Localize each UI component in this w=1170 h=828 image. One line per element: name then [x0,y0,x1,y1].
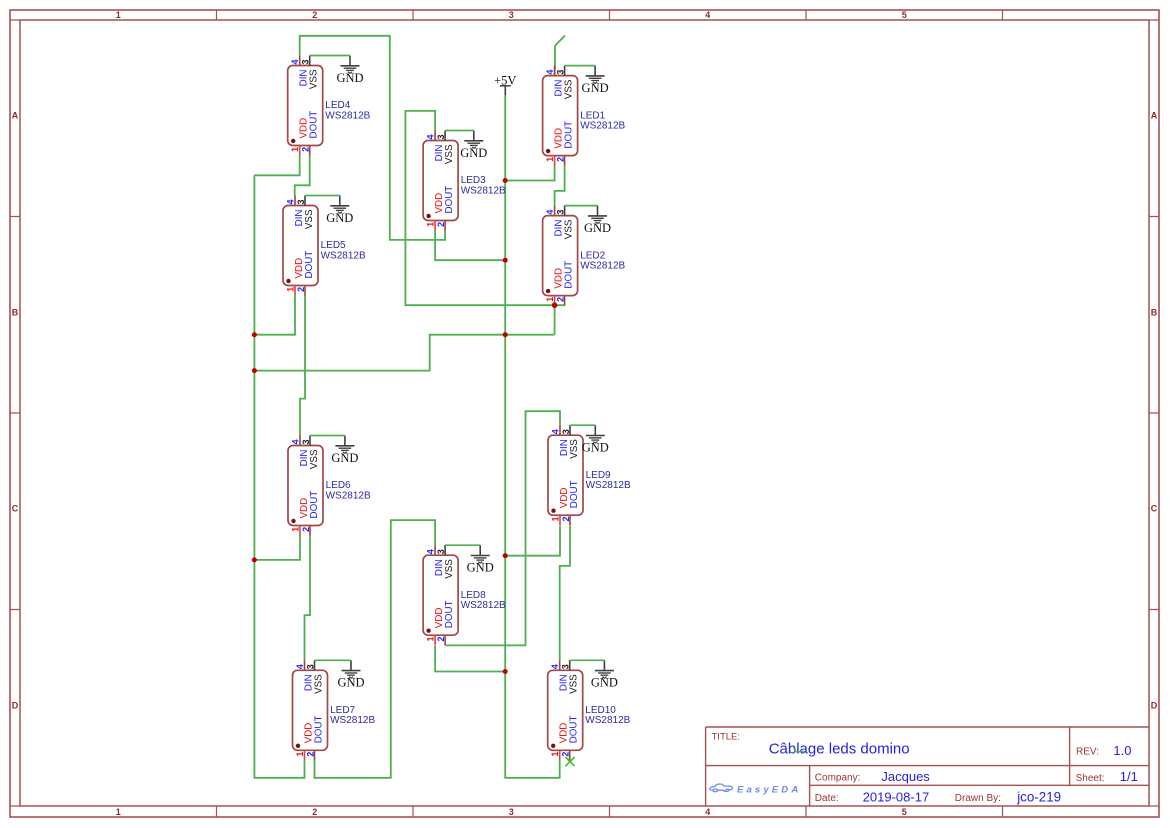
svg-text:Jacques: Jacques [881,769,930,784]
svg-text:5: 5 [902,10,907,20]
wire VSS LED10 to GND [570,659,605,661]
svg-text:DOUT: DOUT [564,121,575,149]
svg-text:DOUT: DOUT [309,491,320,519]
svg-text:C: C [12,504,19,514]
svg-text:GND: GND [326,211,353,225]
svg-text:2: 2 [305,752,315,757]
junction +5V rail / VDD LED3 [503,258,508,263]
svg-text:VSS: VSS [304,209,315,229]
svg-text:GND: GND [337,676,364,690]
svg-text:Sheet:: Sheet: [1076,773,1105,784]
svg-text:2: 2 [312,10,317,20]
svg-text:VSS: VSS [569,674,580,694]
svg-text:4: 4 [425,134,435,139]
wire VSS LED9 to GND [570,424,595,426]
ground GND (LED6) [331,436,358,465]
junction left branch / +5V horizontal [252,368,257,373]
svg-text:WS2812B: WS2812B [330,715,375,726]
svg-text:WS2812B: WS2812B [461,600,506,611]
svg-text:GND: GND [584,221,611,235]
stray green mark in title [794,748,805,752]
svg-text:VSS: VSS [309,449,320,469]
junction left branch / VDD LED5 [252,332,257,337]
svg-text:4: 4 [295,664,305,669]
LED LED8 WS2812B [423,545,506,645]
svg-text:3: 3 [305,664,315,669]
wire branch to VDD LED6 [254,536,300,560]
svg-text:4: 4 [285,199,295,204]
svg-text:3: 3 [301,439,311,444]
LED LED10 WS2812B [548,660,631,760]
svg-text:A: A [1151,111,1158,121]
wire DOUT LED3 to DIN LED4 [300,36,445,240]
svg-text:5: 5 [902,807,907,817]
svg-text:Drawn By:: Drawn By: [955,793,1001,804]
LED LED6 WS2812B [288,436,371,536]
svg-text:WS2812B: WS2812B [321,250,366,261]
junction +5V rail / VDD LED1 [503,178,508,183]
svg-text:2: 2 [436,637,446,642]
wire +5V vertical branch left [254,175,304,778]
svg-text:1: 1 [550,752,560,757]
open end marker DOUT LED10 [565,757,574,766]
svg-text:WS2812B: WS2812B [585,715,630,726]
svg-text:WS2812B: WS2812B [325,110,370,121]
svg-text:1: 1 [550,517,560,522]
svg-text:GND: GND [582,441,609,455]
title block [706,727,1149,806]
wire VSS LED4 to GND [310,55,350,57]
wire DOUT LED7 to DIN LED8 [315,520,436,778]
svg-text:3: 3 [509,807,514,817]
svg-text:WS2812B: WS2812B [461,185,506,196]
svg-text:1: 1 [285,287,295,292]
ground GND (LED2) [584,206,611,235]
svg-text:B: B [1151,307,1158,317]
svg-text:3: 3 [296,199,306,204]
svg-text:1/1: 1/1 [1120,769,1138,784]
svg-text:VSS: VSS [564,79,575,99]
svg-text:VSS: VSS [444,144,455,164]
svg-text:2: 2 [296,287,306,292]
wire VSS LED6 to GND [310,435,345,437]
svg-text:3: 3 [561,664,571,669]
wire DOUT LED8 to DIN LED9 [445,411,560,645]
svg-text:1: 1 [545,297,555,302]
wire VDD LED9 to +5V rail [505,526,560,556]
wire DOUT LED5 to DIN LED6 [300,296,305,436]
wire VDD LED1 to +5V rail [505,166,554,181]
wire DOUT LED9 to DIN LED10 [560,526,570,661]
svg-text:jco-219: jco-219 [1016,789,1061,804]
junction +5V rail / VDD LED9 [503,553,508,558]
svg-text:D: D [12,700,19,710]
svg-text:4: 4 [705,10,710,20]
svg-text:4: 4 [545,210,555,215]
svg-text:Date:: Date: [815,793,839,804]
svg-text:DOUT: DOUT [569,716,580,744]
ground GND (LED7) [337,660,364,689]
svg-text:3: 3 [436,134,446,139]
svg-text:DOUT: DOUT [564,261,575,289]
svg-text:DOUT: DOUT [444,186,455,214]
wire VSS LED1 to GND [565,65,596,67]
wire +5V horizontal to LED5/LED6/LED7 branch [254,335,554,371]
svg-text:GND: GND [331,451,358,465]
svg-text:DOUT: DOUT [309,111,320,139]
svg-text:DOUT: DOUT [304,251,315,279]
LED LED9 WS2812B [548,425,631,525]
svg-text:2: 2 [561,752,571,757]
svg-text:4: 4 [550,429,560,434]
svg-text:2: 2 [555,297,565,302]
svg-text:GND: GND [336,71,363,85]
svg-text:3: 3 [561,429,571,434]
svg-text:EasyEDA: EasyEDA [737,784,801,795]
svg-text:REV:: REV: [1076,747,1099,758]
wire VSS LED8 to GND [445,544,480,546]
wire VSS LED3 to GND [445,130,474,132]
svg-text:Câblage leds domino: Câblage leds domino [769,741,910,758]
svg-text:1: 1 [290,527,300,532]
svg-text:3: 3 [436,549,446,554]
junction +5V rail / VDD LED8 [503,669,508,674]
svg-text:C: C [1151,504,1158,514]
LED LED5 WS2812B [283,196,366,296]
svg-text:VSS: VSS [569,439,580,459]
svg-text:VSS: VSS [444,559,455,579]
svg-text:2: 2 [436,222,446,227]
svg-text:GND: GND [591,676,618,690]
ground GND (LED4) [336,56,363,85]
svg-text:2: 2 [301,147,311,152]
svg-text:Company:: Company: [815,772,861,783]
wire DOUT LED2 / VDD LED2 to DIN LED3 [405,111,564,305]
wire VDD LED8 to +5V rail [435,646,505,672]
svg-text:1.0: 1.0 [1113,743,1131,758]
svg-text:4: 4 [290,59,300,64]
LED LED1 WS2812B [543,66,626,166]
svg-text:1: 1 [290,147,300,152]
junction VDD LED2 / DOUT LED2 net [552,302,558,308]
svg-text:2019-08-17: 2019-08-17 [863,789,930,804]
wire DOUT LED6 to DIN LED7 [305,536,311,661]
ground GND (LED9) [582,425,609,454]
wire branch to VDD LED5 [254,296,295,335]
svg-text:1: 1 [295,752,305,757]
svg-text:2: 2 [312,807,317,817]
svg-text:1: 1 [116,807,121,817]
ground GND (LED3) [460,131,487,160]
svg-text:WS2812B: WS2812B [580,121,625,132]
svg-text:WS2812B: WS2812B [326,490,371,501]
wire VDD LED2 down to +5V horizontal [554,303,556,335]
ground GND (LED5) [326,196,353,225]
LED LED2 WS2812B [543,206,626,306]
wire DOUT LED4 to DIN LED5 [295,156,310,196]
LED LED7 WS2812B [293,660,376,760]
svg-text:4: 4 [705,807,710,817]
svg-text:2: 2 [555,157,565,162]
svg-text:VSS: VSS [314,674,325,694]
wire VDD LED4 to left branch [254,156,299,176]
svg-text:1: 1 [545,157,555,162]
ground GND (LED8) [467,545,494,574]
LED LED4 WS2812B [288,56,371,156]
svg-text:GND: GND [460,146,487,160]
ground GND (LED1) [582,66,609,95]
svg-text:GND: GND [467,561,494,575]
svg-text:VSS: VSS [309,69,320,89]
ground GND (LED10) [591,660,618,689]
svg-text:2: 2 [561,517,571,522]
svg-text:3: 3 [509,10,514,20]
svg-text:TITLE:: TITLE: [712,732,741,743]
svg-text:4: 4 [545,70,555,75]
svg-text:GND: GND [582,81,609,95]
svg-text:1: 1 [425,222,435,227]
wire VDD LED3 to +5V rail [435,231,505,261]
svg-text:VSS: VSS [564,219,575,239]
svg-text:4: 4 [550,664,560,669]
wire VSS LED5 to GND [305,195,340,197]
svg-text:3: 3 [555,70,565,75]
svg-text:4: 4 [290,439,300,444]
svg-text:DOUT: DOUT [569,480,580,508]
svg-text:B: B [12,307,19,317]
svg-text:3: 3 [301,59,311,64]
wire DOUT LED1 to DIN LED2 [555,166,565,206]
wire input to DIN LED1 (diagonal) [555,36,565,76]
svg-text:D: D [1151,700,1158,710]
svg-text:3: 3 [555,210,565,215]
svg-text:4: 4 [425,549,435,554]
wire VSS LED2 to GND [565,205,598,207]
junction left branch / VDD LED6 [252,557,257,562]
svg-text:DOUT: DOUT [444,600,455,628]
svg-text:1: 1 [116,10,121,20]
wire VSS LED7 to GND [315,659,352,661]
junction +5V rail / +5V horizontal [503,332,508,337]
svg-text:DOUT: DOUT [314,716,325,744]
wire +5V rail [505,95,560,778]
svg-text:WS2812B: WS2812B [586,480,631,491]
svg-text:1: 1 [425,637,435,642]
svg-text:2: 2 [301,527,311,532]
svg-text:A: A [12,111,19,121]
svg-text:WS2812B: WS2812B [580,261,625,272]
EasyEDA logo [710,784,802,795]
LED LED3 WS2812B [423,131,506,231]
power +5V [494,73,516,95]
